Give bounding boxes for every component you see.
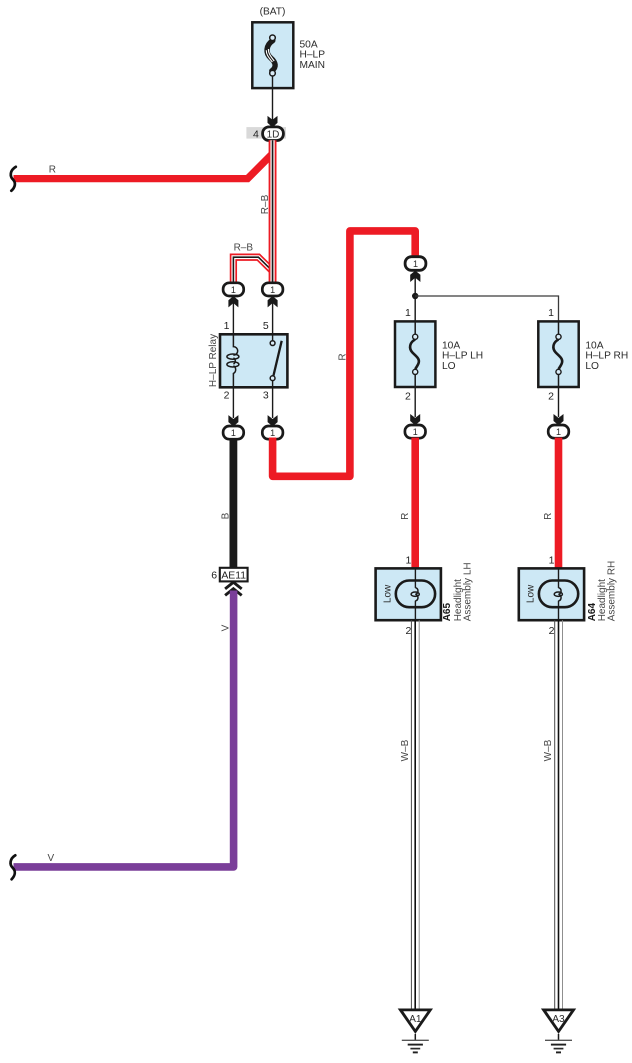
svg-text:1: 1 (405, 555, 411, 567)
label A64 Headlight Assembly RH (587, 561, 618, 622)
svg-text:6: 6 (211, 569, 217, 581)
relay U1 H-LP Relay box (220, 334, 287, 387)
svg-text:R: R (543, 513, 554, 520)
continuation squiggle left (V) (11, 855, 16, 879)
fuse 10A H-LP LH LO (395, 321, 483, 387)
svg-text:R: R (49, 164, 56, 175)
svg-text:R–B: R–B (234, 243, 254, 254)
connector oval 1 (below pin2) (223, 426, 244, 439)
svg-text:V: V (48, 853, 55, 864)
wire R (red U path relay pin3 to fuses) (273, 231, 416, 476)
svg-text:R: R (400, 513, 411, 520)
wire B (black) (230, 439, 238, 569)
svg-text:H–LP Relay: H–LP Relay (208, 334, 219, 387)
svg-text:A1: A1 (409, 1014, 422, 1025)
svg-text:2: 2 (549, 625, 555, 637)
svg-text:1: 1 (548, 307, 554, 319)
svg-text:R: R (337, 353, 348, 360)
svg-text:1: 1 (549, 555, 555, 567)
svg-text:R–B: R–B (260, 194, 271, 214)
svg-text:Low: Low (525, 584, 536, 603)
svg-text:2: 2 (224, 390, 230, 402)
relay switch (270, 334, 282, 387)
headlight assembly RH A64 (519, 568, 584, 620)
svg-text:1: 1 (231, 285, 236, 295)
svg-text:3: 3 (263, 390, 269, 402)
svg-text:MAIN: MAIN (300, 60, 325, 71)
arrow down (pin2) (228, 415, 238, 426)
wire V (purple) (14, 591, 234, 867)
ground A1 (398, 1009, 433, 1053)
wire W-B (RH) (555, 620, 563, 1010)
chevron pair below AE11 (225, 582, 242, 595)
connector oval 1 (relay pin5 side) (262, 283, 283, 296)
arrow up into oval (pin1) (228, 296, 238, 307)
wire R (red, from left) (14, 154, 272, 178)
wire R to headlight RH (555, 438, 563, 569)
svg-text:B: B (220, 512, 231, 519)
svg-text:A3: A3 (552, 1014, 565, 1025)
wire branch to fuse RH (415, 296, 558, 321)
arrow down (pin3) (268, 415, 278, 426)
wire relay pin2 down (232, 387, 234, 418)
connector 4 1D (246, 127, 286, 141)
svg-text:(BAT): (BAT) (260, 7, 286, 18)
svg-text:W–B: W–B (543, 739, 554, 761)
svg-text:LO: LO (442, 361, 456, 372)
svg-text:V: V (220, 624, 231, 631)
svg-text:1: 1 (405, 307, 411, 319)
svg-text:2: 2 (405, 625, 411, 637)
svg-text:Assembly LH: Assembly LH (463, 562, 474, 621)
svg-text:2: 2 (405, 391, 411, 403)
headlight assembly LH A65 (376, 568, 441, 620)
connector oval 1 (fuse RH out) (548, 425, 569, 438)
continuation squiggle left (R) (11, 167, 16, 191)
wire R to headlight LH (411, 438, 419, 569)
wire oval to fuse LH (414, 271, 416, 321)
wire to relay pin 1 (232, 297, 234, 334)
wire relay pin3 down (272, 387, 274, 418)
arrow down (fuse RH) (554, 414, 564, 425)
ground A3 (541, 1009, 576, 1053)
wire to relay pin 5 (272, 297, 274, 334)
wire R-B branch jog to relay pin1 (233, 257, 272, 285)
connector oval 1 (relay pin1 side) (223, 283, 244, 296)
label A65 Headlight Assembly LH (442, 562, 474, 621)
wire fuse LH down (414, 387, 416, 417)
arrow up into oval (pin5) (268, 296, 278, 307)
svg-text:1: 1 (231, 428, 236, 438)
arrow up into oval (fuse feed) (410, 271, 420, 282)
svg-text:Low: Low (382, 584, 393, 603)
arrow into 1D (268, 116, 278, 127)
connector AE11 (211, 568, 247, 582)
wire fuse RH down (558, 387, 560, 417)
svg-text:5: 5 (263, 320, 269, 332)
fuse 50A H-LP MAIN (252, 22, 325, 88)
svg-text:1: 1 (270, 285, 275, 295)
svg-text:Assembly RH: Assembly RH (607, 561, 618, 622)
svg-text:1: 1 (224, 320, 230, 332)
relay coil (227, 334, 239, 387)
svg-text:LO: LO (585, 361, 599, 372)
svg-text:A65: A65 (442, 603, 453, 622)
svg-text:1D: 1D (267, 129, 280, 140)
fuse 10A H-LP RH LO (538, 321, 628, 387)
svg-text:AE11: AE11 (221, 571, 246, 582)
svg-text:1: 1 (270, 428, 275, 438)
connector oval 1 (fuse LH out) (405, 425, 426, 438)
wire R-B main vertical (269, 140, 277, 284)
svg-text:2: 2 (548, 391, 554, 403)
wire fuse 50A to connector 1D (272, 76, 274, 120)
arrow down (fuse LH) (410, 414, 420, 425)
svg-text:W–B: W–B (400, 739, 411, 761)
junction node (412, 293, 418, 299)
svg-text:4: 4 (253, 129, 259, 141)
svg-text:1: 1 (413, 259, 418, 269)
svg-text:1: 1 (413, 427, 418, 437)
svg-text:1: 1 (556, 427, 561, 437)
connector oval 1 (above fuses) (405, 257, 426, 271)
wire W-B (LH) (411, 620, 419, 1010)
connector oval 1 (below pin3) (262, 426, 283, 439)
